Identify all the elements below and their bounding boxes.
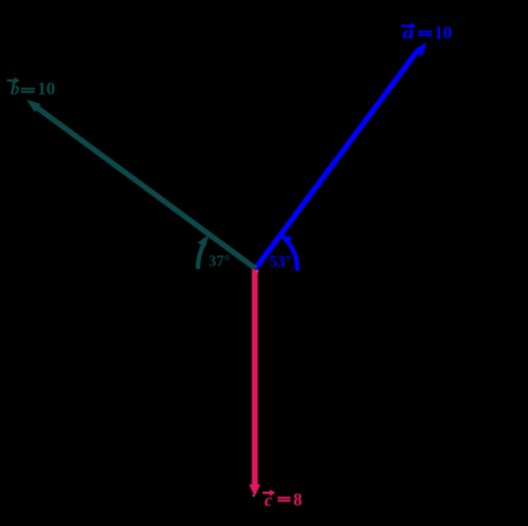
svg-text:10: 10 — [434, 23, 452, 43]
svg-text:53°: 53° — [270, 254, 292, 271]
arrowhead of blue arc — [279, 234, 292, 245]
arc of 53deg angle (blue) — [288, 243, 297, 271]
vector a (blue) wire from origin O up-right at 53deg — [256, 52, 417, 268]
vector arrow over b — [7, 79, 17, 81]
svg-text:8: 8 — [293, 490, 302, 510]
svg-text:10: 10 — [37, 79, 55, 99]
vector b (teal) wire from origin O up-left at 143deg — [35, 106, 256, 269]
svg-text:37°: 37° — [209, 253, 231, 270]
arrowhead of vector c — [249, 484, 261, 496]
node at tip of c point marker (purple) — [252, 494, 255, 497]
arrowhead of vector a — [414, 42, 427, 56]
arrowhead of vector b — [27, 100, 41, 113]
arrowhead of teal arc — [198, 235, 209, 248]
vector arrow over c — [263, 492, 273, 494]
vector c (crimson) wire from origin straight down — [252, 270, 258, 488]
node O point marker (magenta) — [256, 270, 259, 273]
vector arrow over a — [401, 25, 413, 27]
arc of 37deg angle (teal) — [198, 246, 203, 269]
